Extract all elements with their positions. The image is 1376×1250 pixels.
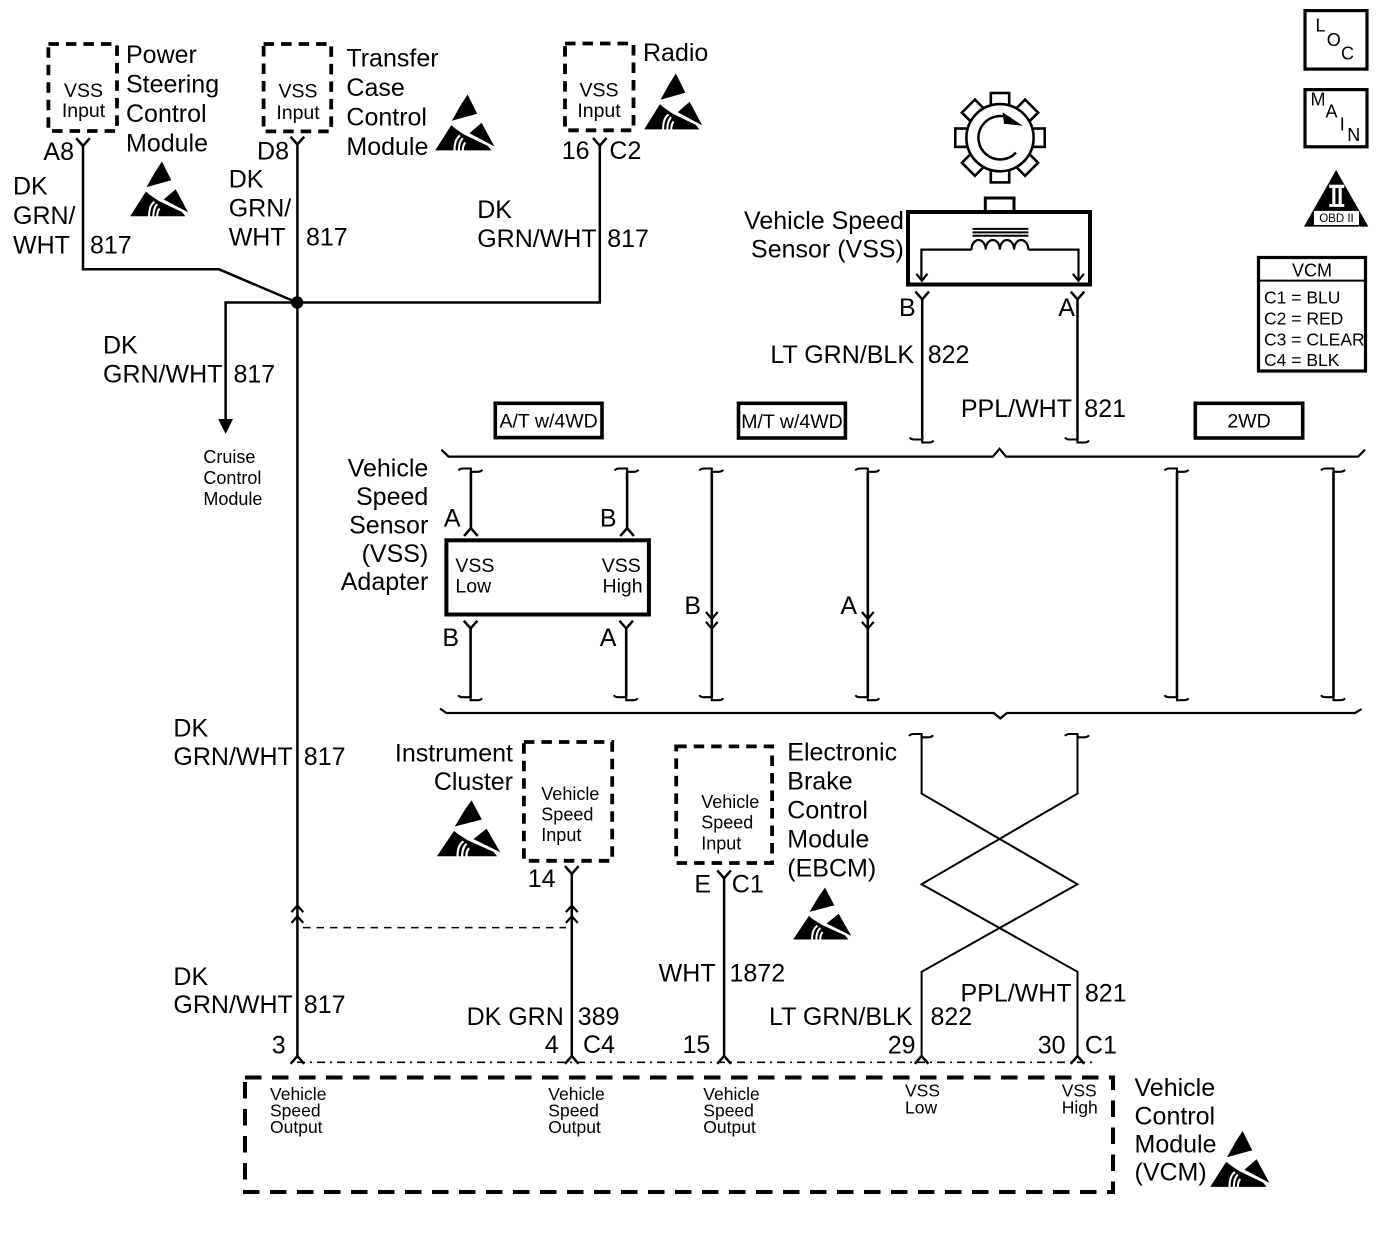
label Vehicle Speed Output (pin 3) bbox=[270, 1084, 326, 1137]
pin 30 C1 bbox=[1038, 1031, 1117, 1063]
svg-text:3: 3 bbox=[272, 1032, 286, 1060]
svg-text:I: I bbox=[1340, 115, 1345, 135]
svg-text:Low: Low bbox=[455, 576, 492, 598]
svg-text:B: B bbox=[899, 294, 916, 322]
svg-text:WHT: WHT bbox=[13, 232, 70, 260]
svg-text:A: A bbox=[840, 592, 857, 620]
wire LT GRN/BLK 822 twisted pair segment to pin 29 bbox=[909, 734, 1077, 1056]
label DK GRN 389 bbox=[467, 1003, 620, 1031]
svg-text:Input: Input bbox=[577, 100, 621, 122]
svg-text:DK GRN: DK GRN bbox=[467, 1003, 564, 1031]
label Vehicle Speed Sensor (VSS) bbox=[744, 207, 904, 264]
svg-text:DK: DK bbox=[477, 196, 512, 224]
svg-text:C4 = BLK: C4 = BLK bbox=[1264, 350, 1340, 370]
svg-text:C2 = RED: C2 = RED bbox=[1264, 308, 1343, 328]
VCM connector legend table bbox=[1259, 258, 1366, 372]
svg-text:L: L bbox=[1316, 16, 1326, 36]
wire DK GRN/WHT 817 from D8 down through junction to pin 3 bbox=[296, 145, 299, 1057]
svg-text:Speed: Speed bbox=[541, 804, 593, 824]
vehicle speed sensor VSS body bbox=[908, 212, 1090, 285]
svg-text:(EBCM): (EBCM) bbox=[787, 855, 876, 883]
label VSS Low (pin 29) bbox=[905, 1081, 940, 1118]
MAIN reference box bbox=[1305, 90, 1367, 147]
OBD II symbol bbox=[1304, 170, 1369, 227]
vehicle speed sensor stem bbox=[985, 198, 1014, 212]
pin A8 bbox=[43, 138, 89, 166]
svg-text:C1 = BLU: C1 = BLU bbox=[1264, 288, 1340, 308]
svg-text:822: 822 bbox=[928, 341, 970, 369]
pin 3 bbox=[272, 1032, 305, 1064]
wire adapter input B (A/T w/4WD path) bbox=[615, 469, 639, 537]
label Vehicle Speed Output (pin 4) bbox=[548, 1084, 604, 1137]
label DK GRN/WHT 817 (cruise branch) bbox=[103, 331, 275, 388]
svg-text:GRN/WHT: GRN/WHT bbox=[477, 225, 596, 253]
svg-text:Vehicle: Vehicle bbox=[701, 792, 759, 812]
svg-text:Input: Input bbox=[541, 825, 581, 845]
wire PPL/WHT 821 twisted pair segment to pin 30 bbox=[922, 734, 1089, 1056]
svg-text:E: E bbox=[694, 870, 711, 898]
svg-text:14: 14 bbox=[528, 865, 556, 893]
svg-text:VSS: VSS bbox=[602, 555, 641, 577]
LOC reference box bbox=[1305, 11, 1367, 70]
svg-text:High: High bbox=[1062, 1097, 1098, 1117]
svg-text:M/T w/4WD: M/T w/4WD bbox=[741, 411, 842, 433]
wire adapter output B bbox=[458, 621, 482, 701]
pin 14 bbox=[528, 865, 579, 893]
svg-text:A: A bbox=[1326, 102, 1338, 122]
svg-text:Vehicle Speed: Vehicle Speed bbox=[744, 207, 904, 235]
svg-text:GRN/: GRN/ bbox=[13, 202, 76, 230]
wire DK GRN/WHT 817 from 16/C2 to junction line bbox=[297, 146, 600, 303]
svg-text:C3 = CLEAR: C3 = CLEAR bbox=[1264, 329, 1365, 349]
wire LT GRN/BLK 822 from VSS B bbox=[910, 299, 934, 442]
svg-text:Module: Module bbox=[1135, 1130, 1217, 1158]
pin 15 bbox=[682, 1031, 730, 1064]
svg-text:VSS: VSS bbox=[455, 555, 494, 577]
svg-text:B: B bbox=[684, 592, 701, 620]
svg-text:Vehicle: Vehicle bbox=[348, 455, 429, 483]
svg-text:LT GRN/BLK: LT GRN/BLK bbox=[769, 1003, 913, 1031]
inductor coil bbox=[972, 240, 1029, 250]
label DK GRN/WHT 817 (below chevrons) bbox=[173, 963, 345, 1019]
svg-text:OBD II: OBD II bbox=[1319, 213, 1354, 225]
svg-text:Output: Output bbox=[703, 1117, 756, 1137]
svg-text:29: 29 bbox=[888, 1031, 916, 1059]
svg-text:GRN/WHT: GRN/WHT bbox=[103, 361, 222, 389]
module Vehicle Control Module VCM (box) bbox=[245, 1078, 1113, 1193]
pin 29 bbox=[888, 1031, 929, 1063]
module Instrument Cluster (connector box) bbox=[395, 740, 612, 861]
VCM pin tie line (dash-dot) bbox=[297, 1061, 1092, 1063]
svg-text:817: 817 bbox=[306, 224, 348, 252]
wire PPL/WHT 821 from VSS A bbox=[1065, 299, 1089, 442]
coil leads with arrows to pins bbox=[916, 250, 1084, 281]
label Vehicle Control Module (VCM) bbox=[1135, 1074, 1217, 1186]
svg-text:B: B bbox=[600, 505, 617, 533]
svg-text:DK: DK bbox=[173, 963, 208, 991]
svg-text:Sensor: Sensor bbox=[349, 511, 428, 539]
svg-text:D8: D8 bbox=[257, 138, 289, 166]
svg-text:VSS: VSS bbox=[64, 80, 103, 102]
svg-text:817: 817 bbox=[304, 991, 346, 1019]
svg-text:WHT: WHT bbox=[659, 959, 716, 987]
svg-text:PPL/WHT: PPL/WHT bbox=[961, 395, 1072, 423]
VSS adapter box bbox=[446, 540, 649, 614]
svg-text:A: A bbox=[600, 624, 617, 652]
ESD warning symbol (Power Steering Control Module) bbox=[130, 161, 188, 216]
svg-text:Output: Output bbox=[548, 1117, 601, 1137]
wire adapter input A (A/T w/4WD path) bbox=[458, 469, 482, 537]
svg-text:817: 817 bbox=[304, 743, 346, 771]
svg-text:VSS: VSS bbox=[579, 80, 618, 102]
svg-text:817: 817 bbox=[90, 232, 132, 260]
svg-text:1872: 1872 bbox=[730, 959, 786, 987]
svg-text:Control: Control bbox=[346, 104, 427, 132]
svg-text:A/T w/4WD: A/T w/4WD bbox=[499, 411, 597, 433]
svg-text:821: 821 bbox=[1084, 395, 1126, 423]
svg-text:GRN/WHT: GRN/WHT bbox=[173, 743, 292, 771]
label Vehicle Speed Sensor (VSS) Adapter bbox=[341, 455, 429, 597]
label DK GRN/WHT 817 (above chevrons) bbox=[173, 714, 345, 771]
svg-text:4: 4 bbox=[545, 1031, 559, 1059]
svg-text:Output: Output bbox=[270, 1117, 323, 1137]
svg-text:Input: Input bbox=[62, 100, 106, 122]
svg-text:Vehicle: Vehicle bbox=[541, 784, 599, 804]
svg-text:16: 16 bbox=[562, 137, 590, 165]
svg-text:O: O bbox=[1327, 30, 1341, 50]
chevrons on main 817 wire bbox=[292, 906, 304, 923]
label WHT 1872 bbox=[659, 959, 785, 987]
svg-text:Control: Control bbox=[1135, 1102, 1216, 1130]
svg-text:A: A bbox=[1058, 294, 1075, 322]
svg-text:M: M bbox=[1311, 90, 1326, 110]
svg-text:DK: DK bbox=[173, 714, 208, 742]
svg-text:C1: C1 bbox=[1085, 1031, 1117, 1059]
pin E C1 bbox=[694, 870, 763, 898]
svg-text:Speed: Speed bbox=[356, 483, 428, 511]
svg-text:DK: DK bbox=[229, 166, 264, 194]
svg-text:(VSS): (VSS) bbox=[362, 540, 429, 568]
pin 16 C2 bbox=[562, 137, 642, 165]
junction node (splice) bbox=[291, 296, 303, 308]
svg-text:Control: Control bbox=[203, 468, 261, 488]
svg-text:Radio: Radio bbox=[643, 39, 708, 67]
wire DK GRN/WHT 817 from A8 to junction bbox=[83, 146, 297, 303]
svg-text:Cruise: Cruise bbox=[203, 447, 255, 467]
svg-text:A: A bbox=[444, 505, 461, 533]
svg-text:Control: Control bbox=[126, 100, 207, 128]
svg-text:GRN/: GRN/ bbox=[229, 195, 292, 223]
label VSS High (pin 30) bbox=[1062, 1081, 1098, 1118]
svg-text:30: 30 bbox=[1038, 1031, 1066, 1059]
wire WHT 1872 from E/C1 to pin 15 bbox=[723, 878, 726, 1056]
svg-text:A8: A8 bbox=[43, 138, 74, 166]
option box 2WD bbox=[1195, 403, 1302, 438]
label DK GRN/WHT 817 (D8 wire) bbox=[229, 166, 348, 252]
svg-text:Module: Module bbox=[787, 826, 869, 854]
wire A (M/T w/4WD path) bbox=[855, 469, 879, 701]
option box M/T w/4WD bbox=[739, 403, 846, 438]
module Power Steering Control Module (connector box) bbox=[48, 41, 219, 158]
dashed tie line between chevrons bbox=[303, 927, 566, 929]
label PPL/WHT 821 bbox=[961, 395, 1126, 423]
svg-text:C: C bbox=[1341, 44, 1354, 64]
ESD warning symbol (Instrument Cluster) bbox=[437, 800, 500, 857]
ESD warning symbol (VCM) bbox=[1210, 1131, 1269, 1188]
svg-text:DK: DK bbox=[13, 173, 48, 201]
svg-text:WHT: WHT bbox=[229, 224, 286, 252]
wire right (2WD path) bbox=[1321, 469, 1345, 701]
svg-text:2WD: 2WD bbox=[1227, 411, 1270, 433]
wire left (2WD path) bbox=[1165, 469, 1189, 701]
svg-text:817: 817 bbox=[234, 361, 276, 389]
svg-text:PPL/WHT: PPL/WHT bbox=[960, 979, 1071, 1007]
svg-text:Speed: Speed bbox=[701, 813, 753, 833]
pin A of VSS bbox=[1058, 292, 1084, 322]
svg-text:Input: Input bbox=[701, 833, 741, 853]
pin 4 C4 bbox=[545, 1031, 615, 1064]
rotation arrow inside gear bbox=[978, 112, 1023, 159]
svg-text:C2: C2 bbox=[609, 137, 641, 165]
svg-text:Cluster: Cluster bbox=[434, 768, 513, 796]
svg-text:VCM: VCM bbox=[1292, 261, 1332, 281]
label DK GRN/WHT 817 (A8 wire) bbox=[13, 173, 132, 260]
svg-text:Sensor (VSS): Sensor (VSS) bbox=[751, 236, 904, 264]
label Cruise Control Module bbox=[203, 447, 262, 509]
vehicle speed sensor reluctor gear bbox=[955, 93, 1044, 182]
pin D8 bbox=[257, 137, 304, 166]
label PPL/WHT 821 (lower) bbox=[960, 979, 1126, 1007]
svg-text:GRN/WHT: GRN/WHT bbox=[173, 991, 292, 1019]
svg-text:C1: C1 bbox=[732, 870, 764, 898]
wire DK GRN/WHT 817 branch to Cruise Control Module bbox=[226, 303, 297, 421]
svg-text:Transfer: Transfer bbox=[346, 45, 438, 73]
svg-text:Brake: Brake bbox=[787, 768, 852, 796]
wire B (M/T w/4WD path) bbox=[699, 469, 723, 701]
svg-text:C4: C4 bbox=[583, 1031, 615, 1059]
label DK GRN/WHT 817 (Radio wire) bbox=[477, 196, 649, 253]
svg-text:Instrument: Instrument bbox=[395, 740, 513, 768]
svg-text:(VCM): (VCM) bbox=[1135, 1158, 1207, 1186]
module Electronic Brake Control Module EBCM (connector box) bbox=[676, 739, 897, 883]
svg-text:Module: Module bbox=[126, 130, 208, 158]
svg-text:Vehicle: Vehicle bbox=[1135, 1074, 1216, 1102]
label Vehicle Speed Output (pin 15) bbox=[703, 1084, 759, 1137]
pin B of VSS bbox=[899, 292, 929, 322]
ESD warning symbol (Radio) bbox=[644, 74, 702, 131]
svg-text:821: 821 bbox=[1085, 979, 1127, 1007]
arrowhead to Cruise Control Module bbox=[218, 419, 233, 434]
wire DK GRN 389 from pin 14 to pin 4 bbox=[566, 874, 578, 1056]
wire adapter output A bbox=[614, 621, 638, 701]
inductor core lines bbox=[973, 229, 1029, 236]
svg-text:Power: Power bbox=[126, 41, 197, 69]
ESD warning symbol (EBCM) bbox=[793, 887, 851, 940]
option box A/T w/4WD bbox=[495, 403, 602, 437]
svg-text:Adapter: Adapter bbox=[341, 568, 429, 596]
ESD warning symbol (Transfer Case Control Module) bbox=[435, 95, 494, 152]
svg-text:Module: Module bbox=[346, 133, 428, 161]
upper selection brace bbox=[441, 449, 1365, 457]
svg-text:High: High bbox=[602, 576, 642, 598]
svg-text:DK: DK bbox=[103, 331, 138, 359]
label LT GRN/BLK 822 bbox=[770, 341, 969, 369]
svg-text:B: B bbox=[442, 624, 459, 652]
svg-text:Case: Case bbox=[346, 74, 404, 102]
svg-text:N: N bbox=[1347, 125, 1360, 145]
lower selection brace bbox=[440, 709, 1362, 719]
svg-text:389: 389 bbox=[578, 1003, 620, 1031]
module Radio (connector box) bbox=[565, 39, 708, 131]
svg-text:Low: Low bbox=[905, 1097, 937, 1117]
svg-text:VSS: VSS bbox=[278, 81, 317, 103]
label LT GRN/BLK 822 (lower) bbox=[769, 1003, 972, 1031]
module Transfer Case Control Module (connector box) bbox=[264, 44, 439, 161]
svg-text:Electronic: Electronic bbox=[787, 739, 897, 767]
svg-text:Input: Input bbox=[276, 102, 320, 124]
svg-text:Module: Module bbox=[203, 489, 262, 509]
svg-text:LT GRN/BLK: LT GRN/BLK bbox=[770, 341, 914, 369]
svg-text:Control: Control bbox=[787, 797, 868, 825]
svg-text:817: 817 bbox=[607, 225, 649, 253]
svg-text:Steering: Steering bbox=[126, 71, 219, 99]
svg-text:15: 15 bbox=[682, 1031, 710, 1059]
